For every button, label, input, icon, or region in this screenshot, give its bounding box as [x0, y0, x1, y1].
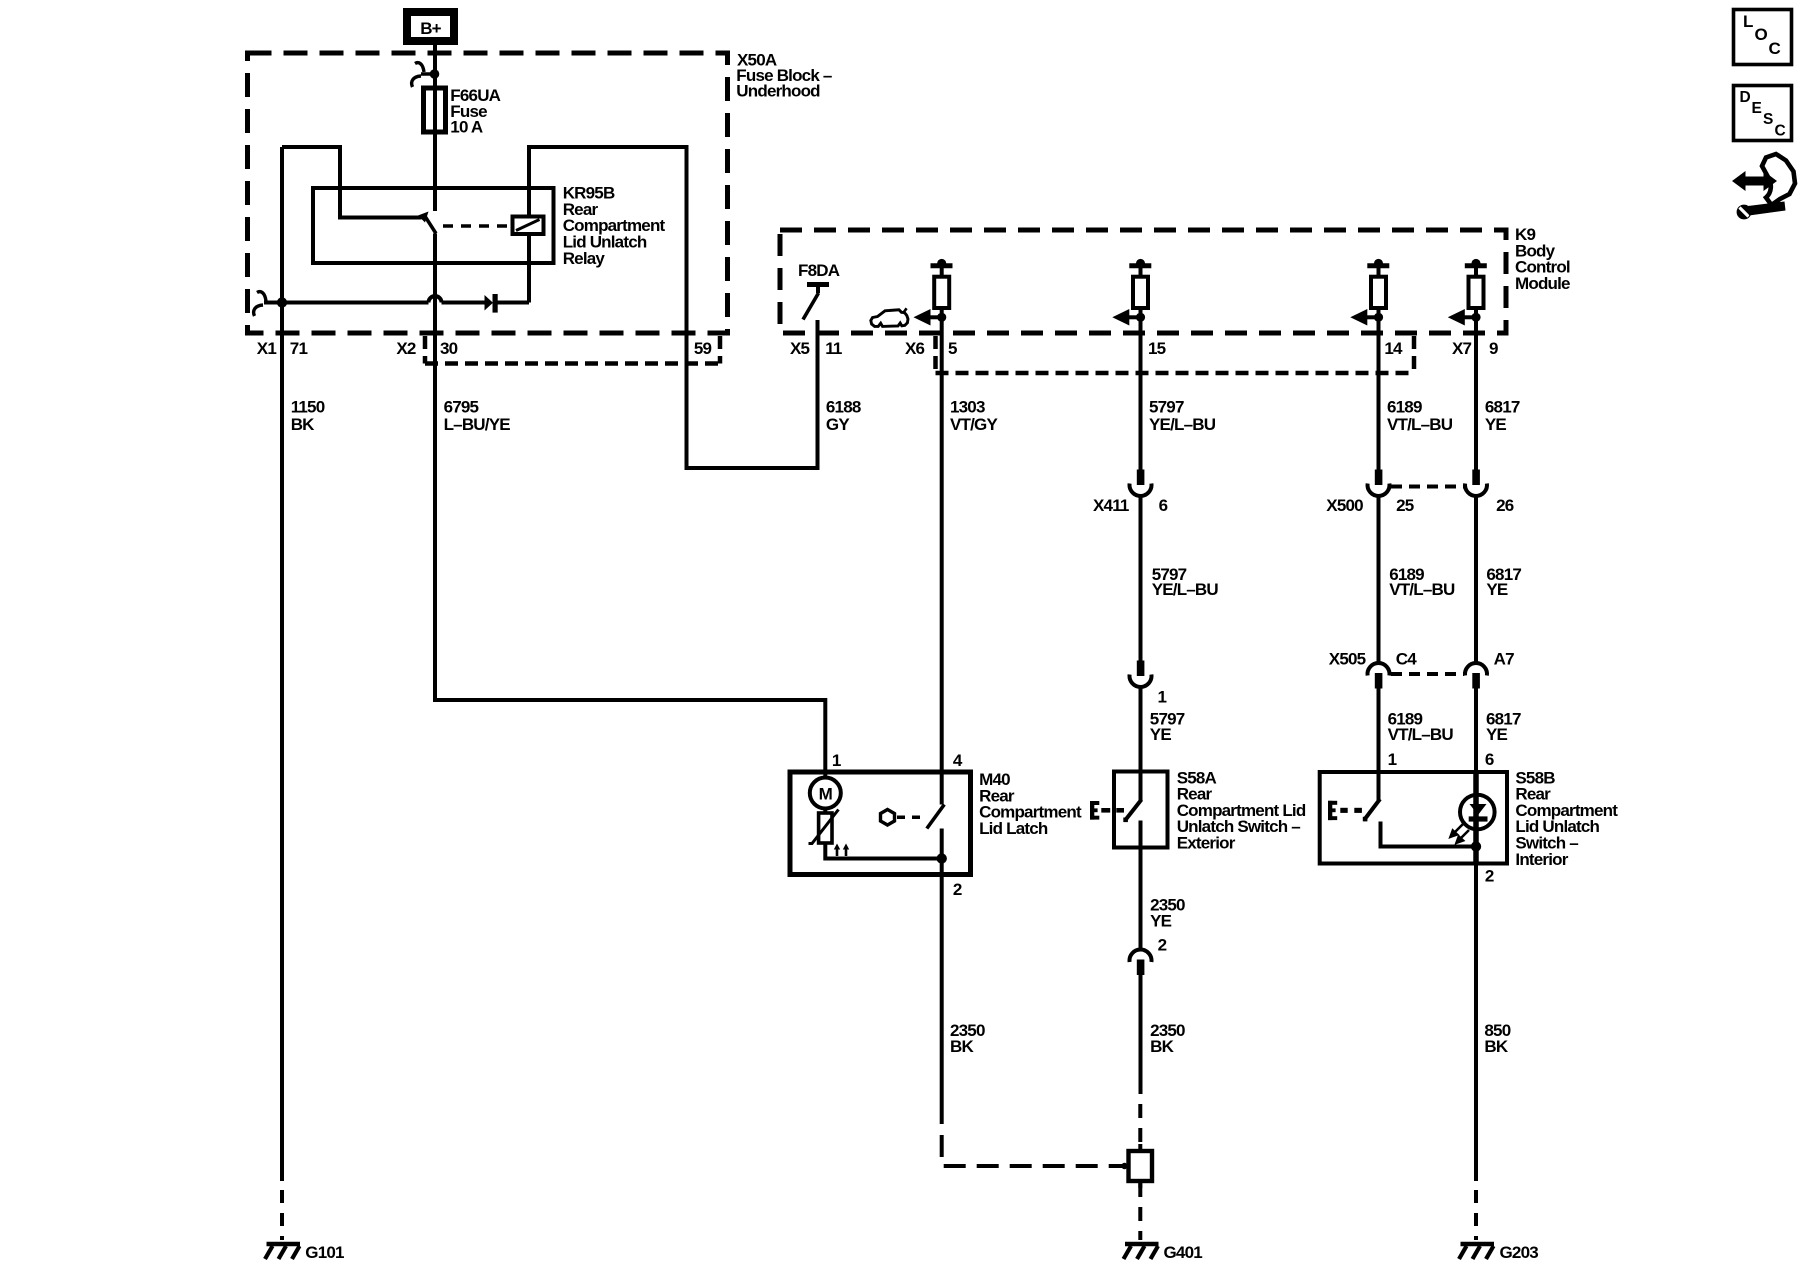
svg-text:L: L [1743, 12, 1753, 31]
svg-text:G101: G101 [305, 1243, 344, 1262]
svg-text:M: M [819, 785, 833, 804]
svg-text:GY: GY [826, 415, 850, 434]
svg-text:6: 6 [1159, 496, 1168, 515]
svg-text:1303: 1303 [950, 398, 985, 417]
svg-text:X1: X1 [257, 339, 277, 358]
svg-text:10 A: 10 A [450, 117, 483, 136]
svg-text:Lid Latch: Lid Latch [979, 819, 1048, 838]
svg-text:BK: BK [950, 1037, 974, 1056]
svg-text:YE: YE [1486, 580, 1508, 599]
svg-text:26: 26 [1496, 496, 1514, 515]
svg-text:YE/L–BU: YE/L–BU [1149, 415, 1216, 434]
svg-text:11: 11 [825, 339, 842, 358]
svg-text:Underhood: Underhood [736, 81, 820, 100]
svg-text:6189: 6189 [1387, 398, 1422, 417]
svg-text:2: 2 [953, 880, 962, 899]
svg-text:6188: 6188 [826, 398, 861, 417]
svg-text:2: 2 [1485, 867, 1494, 886]
svg-text:X2: X2 [396, 339, 416, 358]
svg-text:4: 4 [953, 751, 963, 770]
svg-text:A7: A7 [1494, 649, 1514, 668]
svg-text:YE: YE [1486, 725, 1508, 744]
svg-text:VT/L–BU: VT/L–BU [1388, 725, 1454, 744]
svg-text:71: 71 [290, 339, 308, 358]
svg-text:9: 9 [1489, 339, 1498, 358]
svg-text:C4: C4 [1396, 649, 1417, 668]
svg-text:BK: BK [291, 415, 315, 434]
svg-text:L–BU/YE: L–BU/YE [444, 415, 511, 434]
svg-text:Interior: Interior [1515, 850, 1568, 869]
svg-text:VT/GY: VT/GY [950, 415, 998, 434]
svg-text:Module: Module [1515, 274, 1570, 293]
svg-text:G401: G401 [1164, 1243, 1203, 1262]
svg-text:D: D [1740, 89, 1751, 106]
svg-text:14: 14 [1384, 339, 1403, 358]
svg-text:E: E [1752, 100, 1762, 117]
svg-text:YE: YE [1485, 415, 1507, 434]
svg-text:1150: 1150 [291, 398, 325, 417]
svg-text:VT/L–BU: VT/L–BU [1387, 415, 1453, 434]
svg-text:O: O [1755, 25, 1768, 44]
svg-text:2: 2 [1158, 936, 1167, 955]
svg-text:30: 30 [440, 339, 458, 358]
svg-text:X6: X6 [905, 339, 925, 358]
svg-text:25: 25 [1396, 496, 1414, 515]
svg-text:1: 1 [1158, 687, 1167, 706]
svg-text:1: 1 [1388, 750, 1397, 769]
svg-text:59: 59 [694, 339, 712, 358]
svg-text:BK: BK [1484, 1037, 1508, 1056]
svg-text:X411: X411 [1093, 496, 1129, 515]
svg-text:6817: 6817 [1485, 398, 1520, 417]
svg-text:YE/L–BU: YE/L–BU [1152, 580, 1219, 599]
svg-text:1: 1 [832, 751, 841, 770]
svg-text:C: C [1775, 123, 1786, 140]
svg-text:F8DA: F8DA [798, 261, 840, 280]
svg-text:X505: X505 [1329, 649, 1366, 668]
svg-text:15: 15 [1148, 339, 1166, 358]
svg-text:5: 5 [948, 339, 957, 358]
svg-text:X7: X7 [1452, 339, 1472, 358]
svg-text:Exterior: Exterior [1177, 834, 1236, 853]
svg-text:YE: YE [1150, 912, 1172, 931]
svg-text:VT/L–BU: VT/L–BU [1389, 580, 1455, 599]
svg-text:C: C [1769, 39, 1781, 58]
svg-text:6: 6 [1485, 750, 1494, 769]
svg-text:5797: 5797 [1149, 398, 1184, 417]
svg-text:6795: 6795 [444, 398, 479, 417]
svg-text:X5: X5 [790, 339, 810, 358]
svg-text:G203: G203 [1500, 1243, 1539, 1262]
svg-text:B+: B+ [420, 19, 441, 38]
svg-text:Relay: Relay [563, 249, 606, 268]
svg-text:X500: X500 [1326, 496, 1363, 515]
svg-text:BK: BK [1150, 1037, 1174, 1056]
svg-text:YE: YE [1150, 725, 1172, 744]
svg-text:S: S [1763, 111, 1773, 128]
